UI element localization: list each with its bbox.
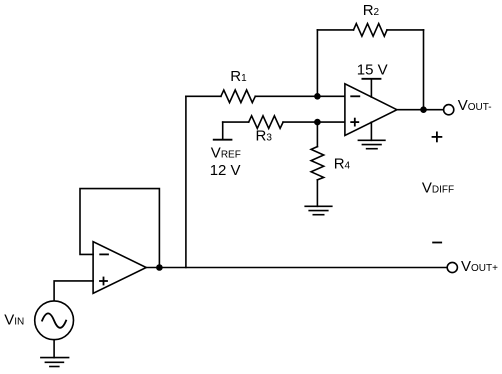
15 V supply pin bbox=[362, 79, 380, 97]
ground (below VIN source) bbox=[41, 358, 69, 367]
plus sign (differential output polarity) bbox=[433, 132, 442, 141]
resistor R3 bbox=[249, 116, 283, 129]
wire riser from output rail up to R1 bbox=[185, 96, 187, 267]
wire R2 top right lead bbox=[387, 29, 424, 31]
svg-text:R3: R3 bbox=[256, 128, 273, 145]
op-amp U1 (buffer) bbox=[93, 242, 146, 294]
svg-text:12 V: 12 V bbox=[210, 162, 241, 179]
wire R2 feedback loop left leg bbox=[316, 30, 318, 96]
resistor R1 bbox=[221, 90, 255, 103]
svg-text:R4: R4 bbox=[334, 155, 351, 172]
resistor R4 bbox=[311, 147, 324, 180]
svg-text:VOUT-: VOUT- bbox=[458, 97, 492, 114]
node C (U2 output junction) bbox=[420, 106, 427, 113]
svg-text:15 V: 15 V bbox=[357, 62, 388, 79]
wire R3 right lead to node D bbox=[283, 121, 317, 123]
ground (below R4) bbox=[305, 206, 332, 214]
wire R4 bottom lead bbox=[316, 180, 318, 207]
wire U1 feedback loop (output to inverting input) bbox=[80, 189, 159, 268]
node A (U1 output junction) bbox=[156, 264, 163, 271]
wire source to ground bbox=[53, 340, 55, 358]
U2 ground pin bbox=[370, 122, 372, 140]
wire R3 left lead bbox=[223, 121, 249, 123]
op-amp U2 (difference amp) bbox=[345, 84, 397, 136]
wire R1 right lead to node B bbox=[255, 95, 317, 97]
wire node B to U2 inverting input bbox=[317, 95, 345, 97]
wire R4 top lead bbox=[316, 122, 318, 147]
wire R1 left lead bbox=[186, 95, 221, 97]
terminal VOUT- bbox=[444, 105, 454, 115]
svg-text:VOUT+: VOUT+ bbox=[461, 258, 498, 275]
resistor R2 bbox=[354, 24, 388, 37]
svg-text:VREF: VREF bbox=[211, 145, 241, 162]
node D (non-inverting input junction) bbox=[314, 119, 321, 126]
VREF terminal stub bbox=[214, 122, 232, 140]
wire node D to U2 non-inverting input bbox=[317, 121, 345, 123]
wire U2 output to VOUT- terminal bbox=[397, 109, 444, 111]
svg-text:R1: R1 bbox=[230, 68, 247, 85]
svg-text:VDIFF: VDIFF bbox=[422, 180, 454, 197]
minus sign (differential output polarity) bbox=[433, 242, 441, 244]
wire U1 non-inverting input to source bbox=[54, 281, 93, 301]
wire R2 top left lead bbox=[317, 29, 353, 31]
wire U1 output rail to VOUT+ terminal bbox=[146, 267, 447, 269]
svg-text:R2: R2 bbox=[363, 2, 380, 19]
ground (below U2) bbox=[358, 140, 385, 148]
svg-text:VIN: VIN bbox=[4, 311, 24, 328]
source VIN (sine source) bbox=[35, 301, 74, 340]
wire R2 feedback loop right leg down to output node bbox=[423, 30, 425, 110]
node B (inverting input junction) bbox=[314, 93, 321, 100]
terminal VOUT+ bbox=[447, 262, 457, 272]
